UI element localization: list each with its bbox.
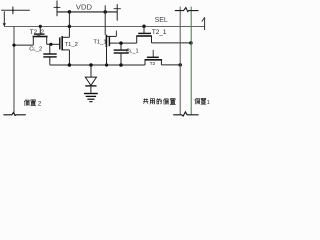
junction dot storage left — [49, 43, 52, 46]
wire top-right with break mark — [175, 8, 199, 12]
junction dot row-T2_1 gate — [142, 24, 146, 28]
wire storage node right — [121, 42, 137, 44]
svg-text:CL_1: CL_1 — [126, 49, 139, 55]
svg-text:1: 1 — [207, 100, 210, 106]
wire left bias bus — [13, 26, 15, 112]
transistor T1_2 — [60, 36, 70, 50]
label shared bias (CJK 共用的偏置) — [143, 99, 175, 105]
wire T2 to left right-bus — [161, 64, 180, 66]
wire bus to T2_2 — [14, 44, 33, 46]
svg-text:VDD: VDD — [76, 2, 93, 11]
arrow down at top-left — [3, 11, 6, 26]
wire bottom-left with break mark — [3, 113, 25, 116]
svg-text:SEL: SEL — [155, 17, 168, 24]
capacitor CL_2 — [43, 44, 56, 65]
svg-text:CL_2: CL_2 — [29, 46, 42, 52]
diode D1 — [85, 65, 96, 93]
wire storage node left — [47, 43, 60, 45]
svg-text:T1_1: T1_1 — [93, 39, 106, 45]
junction dot row-drain cross — [68, 25, 72, 29]
svg-text:T2_1: T2_1 — [152, 29, 167, 36]
ground — [84, 94, 98, 102]
label bias1 (CJK 偏置1) — [195, 98, 206, 104]
wire T1_1 head vertical — [104, 5, 106, 35]
transistor T2_2 — [33, 26, 48, 45]
VDD rail — [57, 11, 117, 13]
SEL wire end arrow — [202, 17, 205, 30]
transistor T2_1 — [136, 26, 152, 43]
wire T1_2 source vertical — [68, 50, 70, 65]
wire T1_2 drain vertical — [68, 12, 70, 38]
svg-text:T1_2: T1_2 — [65, 42, 78, 48]
wire right bus 1 — [179, 7, 181, 115]
svg-text:T2: T2 — [150, 61, 156, 67]
junction dot node-T1_2 — [68, 63, 72, 67]
node row line (SEL row wire) — [4, 25, 205, 27]
junction dot VDD-T1_1 — [103, 10, 107, 14]
wire top-left horizontal — [1, 9, 30, 11]
transistor T2 — [145, 50, 163, 65]
junction dot node-diode — [89, 63, 93, 67]
transistor T1_1 — [106, 31, 121, 65]
junction dot node-CL_1 — [119, 63, 123, 67]
wire right bus 2 (green) — [190, 7, 192, 115]
wire bottom node — [50, 64, 145, 66]
wire T2_1 to right bus — [152, 42, 191, 44]
junction dot row-T2_2 gate — [39, 25, 42, 28]
junction dot VDD-T1_2 — [68, 10, 72, 14]
rail left end stub — [54, 1, 61, 17]
junction dot storage right — [119, 41, 123, 45]
svg-text:T2_2: T2_2 — [30, 29, 45, 36]
junction dot right bus — [189, 41, 193, 45]
wire bottom-right with break mark — [173, 112, 198, 116]
capacitor CL_1 — [114, 43, 129, 65]
label bias2 (CJK 偏置2) — [24, 100, 35, 106]
tick crossing top-left wire — [12, 7, 14, 15]
junction dot left right-bus — [178, 63, 182, 67]
junction dot bus-T2_2 — [12, 44, 15, 47]
junction dot node-T1_1 gate — [105, 63, 108, 66]
rail right end stub — [114, 4, 121, 20]
